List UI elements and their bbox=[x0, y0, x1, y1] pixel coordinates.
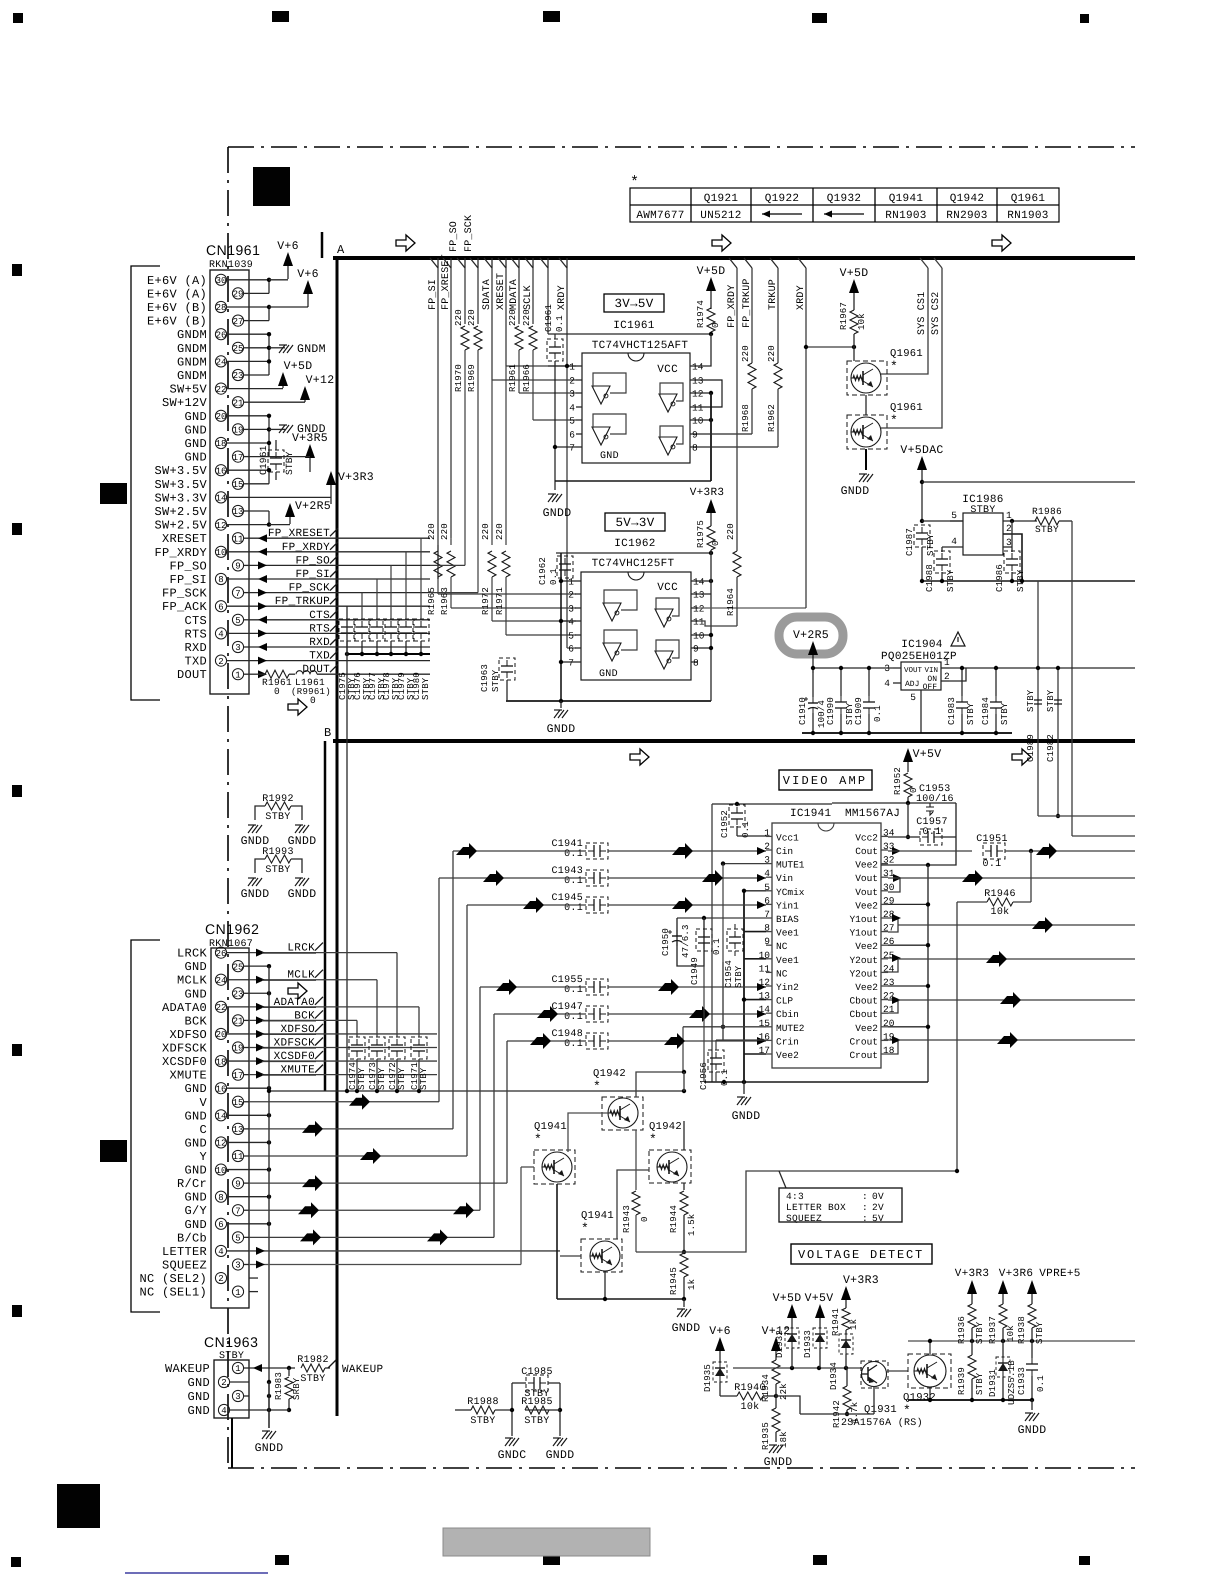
capacitor C1973 STBY bbox=[369, 1037, 385, 1059]
transistor Q1931 bbox=[862, 1362, 887, 1387]
wire IC1962 pin14 VCC to R1975 bbox=[698, 580, 711, 582]
page border dash-dot bbox=[228, 146, 1135, 148]
bottom gray redaction box bbox=[443, 1528, 650, 1556]
svg-text:CTS: CTS bbox=[309, 610, 330, 622]
svg-text:11: 11 bbox=[233, 1152, 244, 1162]
IC1941 pin 30 Vout bbox=[881, 890, 888, 892]
svg-text:8: 8 bbox=[218, 575, 223, 585]
CN1962 pin 6 bbox=[215, 1218, 226, 1229]
svg-text:SW+3.5V: SW+3.5V bbox=[154, 464, 207, 478]
svg-text:TC74VHC125FT: TC74VHC125FT bbox=[592, 558, 675, 570]
CN1961 pin 11 bbox=[232, 533, 243, 544]
svg-text:FP_ACK: FP_ACK bbox=[162, 600, 208, 614]
svg-text:GND: GND bbox=[184, 410, 207, 424]
svg-text:26: 26 bbox=[216, 330, 227, 340]
svg-text:SW+12V: SW+12V bbox=[162, 396, 208, 410]
CN1961 pin wires E+6V group bbox=[249, 279, 269, 281]
svg-text:10: 10 bbox=[693, 631, 705, 642]
resistor R1938 STBY bbox=[1028, 1304, 1036, 1328]
inductor L1961 (R9961) on DOUT bbox=[289, 673, 295, 675]
svg-text:2V: 2V bbox=[872, 1202, 884, 1213]
capacitor C1909 0.1 bbox=[868, 696, 870, 702]
capacitor C1986 STBY bbox=[1004, 551, 1020, 573]
CN1962 pin 16 bbox=[215, 1083, 226, 1094]
wire C1945 line bbox=[420, 904, 586, 906]
CN1961 pin 30 bbox=[215, 274, 226, 285]
wire IC1961 outputs right bbox=[697, 380, 722, 407]
svg-text:R1964: R1964 bbox=[726, 588, 736, 616]
input arrows before caps bbox=[456, 843, 477, 859]
svg-text:0.1: 0.1 bbox=[549, 568, 559, 585]
svg-text:R1935: R1935 bbox=[761, 1422, 771, 1450]
CN1962 pin 13 bbox=[232, 1123, 243, 1134]
V+2R5 rail bbox=[813, 667, 893, 669]
svg-text:NC: NC bbox=[776, 968, 788, 979]
IC1941 pin 15 MUTE2 bbox=[766, 1026, 772, 1028]
svg-text:FP_SI: FP_SI bbox=[169, 573, 207, 587]
IC1962 pin 11 bbox=[691, 620, 698, 622]
svg-text:0: 0 bbox=[640, 1216, 650, 1222]
svg-text:V+5D: V+5D bbox=[284, 360, 313, 373]
IC1961 pin 5 bbox=[576, 419, 582, 421]
wire right vertical x=1058 bbox=[1057, 668, 1059, 816]
svg-text:11: 11 bbox=[759, 963, 771, 974]
power arrow V+5V detect bbox=[815, 1304, 825, 1318]
wire DOUT column bbox=[547, 268, 549, 334]
svg-text:V+5D: V+5D bbox=[840, 267, 869, 280]
IC1962 pin 7 bbox=[575, 661, 581, 663]
svg-text:GND: GND bbox=[184, 451, 207, 465]
IC1962 pin 3 bbox=[575, 607, 581, 609]
svg-text:1: 1 bbox=[235, 1288, 240, 1298]
wire Q1941 left base from SQUEEZ bbox=[521, 1166, 534, 1168]
svg-text:2: 2 bbox=[218, 1274, 223, 1284]
diode D1934 bbox=[839, 1334, 853, 1354]
bus B bbox=[333, 739, 1135, 743]
caps C1975-C1980 ground rail bbox=[347, 653, 430, 655]
CN1961 pin 24 bbox=[215, 356, 226, 367]
wire cap stub bbox=[420, 538, 422, 619]
IC1941 pin 24 Y2out bbox=[881, 971, 888, 973]
svg-text:STBY: STBY bbox=[970, 505, 995, 516]
svg-text:C1986: C1986 bbox=[995, 564, 1005, 592]
svg-text:R1968: R1968 bbox=[741, 404, 751, 432]
svg-text:3: 3 bbox=[235, 1261, 240, 1271]
IC1941 pin 19 Crout bbox=[881, 1039, 888, 1041]
svg-text:D1933: D1933 bbox=[803, 1330, 813, 1358]
capacitor C1987 STBY bbox=[914, 525, 930, 547]
IC1986 pin 1 bbox=[1003, 520, 1037, 522]
CN1961 pin 15 bbox=[232, 478, 243, 489]
open arrow near MCLK bbox=[288, 983, 307, 999]
footer blue rule bbox=[125, 1572, 268, 1574]
resistor R1939 STBY bbox=[968, 1355, 976, 1379]
wire IC1961 gnd bottom bbox=[555, 480, 711, 482]
svg-text:18k: 18k bbox=[779, 1431, 789, 1448]
svg-text:Yin1: Yin1 bbox=[776, 900, 799, 911]
CN1961 pin 5 bbox=[232, 614, 243, 625]
wire IC1961 pin8 to TRKUP col bbox=[697, 446, 778, 448]
svg-text:CN1963: CN1963 bbox=[204, 1334, 258, 1350]
svg-text:R1952: R1952 bbox=[893, 767, 903, 795]
svg-text:4: 4 bbox=[569, 403, 575, 414]
svg-text:9: 9 bbox=[235, 562, 240, 572]
svg-text:C1952: C1952 bbox=[720, 810, 730, 838]
capacitor C1933 0.1 bbox=[1031, 1358, 1033, 1364]
svg-text:32: 32 bbox=[883, 855, 895, 866]
svg-text:R1943: R1943 bbox=[622, 1205, 632, 1233]
svg-text:Crout: Crout bbox=[849, 1036, 878, 1047]
svg-text:R1967: R1967 bbox=[839, 302, 849, 330]
svg-text:3: 3 bbox=[569, 389, 575, 400]
wire SQUEEZ row bbox=[249, 1263, 521, 1265]
IC1941 pin 12 Yin2 bbox=[766, 985, 772, 987]
resistor R1974 0 bbox=[707, 308, 715, 332]
ground GNDD video amp bbox=[743, 1082, 745, 1094]
svg-text:R1969: R1969 bbox=[467, 364, 477, 392]
capacitor C1982 STBY on vertical bbox=[1054, 700, 1062, 704]
svg-text:24: 24 bbox=[216, 358, 227, 368]
svg-text:VOUT: VOUT bbox=[904, 666, 923, 675]
wire CN1963 bottom to border bbox=[231, 1418, 233, 1468]
capacitor C1980 STBY bbox=[413, 619, 429, 641]
ground GNDC bbox=[505, 1437, 513, 1439]
wire cap stub bbox=[376, 579, 378, 619]
svg-text:C: C bbox=[199, 1123, 207, 1137]
svg-text:220: 220 bbox=[481, 523, 491, 540]
svg-text:STBY: STBY bbox=[926, 533, 936, 556]
svg-text:NC (SEL2): NC (SEL2) bbox=[139, 1272, 207, 1286]
svg-text:IC1941: IC1941 bbox=[790, 808, 832, 820]
svg-text:SQUEEZ: SQUEEZ bbox=[162, 1258, 207, 1272]
CN1961 pin 18 bbox=[215, 437, 226, 448]
svg-text:5: 5 bbox=[569, 416, 575, 427]
resistor R1934 22k bbox=[772, 1360, 780, 1384]
svg-text:11: 11 bbox=[693, 617, 705, 628]
Q1961 lower dashed box bbox=[847, 415, 887, 449]
svg-text:Cout: Cout bbox=[855, 846, 878, 857]
wire right vertical x=1038 bbox=[1037, 581, 1039, 816]
capacitor C1954 STBY bbox=[727, 929, 743, 951]
svg-text:2: 2 bbox=[568, 590, 574, 601]
svg-text:CN1961: CN1961 bbox=[206, 242, 260, 258]
CN1961 pin 9 bbox=[232, 560, 243, 571]
resistor R1962 220 bbox=[777, 268, 779, 363]
CN1962 pin 11 bbox=[232, 1150, 243, 1161]
open arrow above bus A right bbox=[992, 235, 1011, 251]
svg-text:GNDD: GNDD bbox=[546, 1449, 575, 1462]
svg-text:STBY: STBY bbox=[421, 677, 431, 700]
IC1962 pin 5 bbox=[575, 634, 581, 636]
ground GNDD under cluster bbox=[683, 1299, 685, 1307]
power arrow V+5D above R1967 bbox=[849, 279, 859, 293]
svg-text:*: * bbox=[581, 1221, 589, 1236]
CN1962 pin 22 bbox=[215, 1001, 226, 1012]
CN1962 pin 8 bbox=[215, 1191, 226, 1202]
CN1962 pin 18 bbox=[215, 1055, 226, 1066]
IC1941 pin 28 Y1out bbox=[881, 917, 888, 919]
svg-text:47/6.3: 47/6.3 bbox=[681, 924, 691, 958]
svg-text:14: 14 bbox=[692, 362, 704, 373]
CN1962 pin 5 bbox=[232, 1232, 243, 1243]
svg-text:0: 0 bbox=[310, 695, 316, 706]
svg-text:FP_XRDY: FP_XRDY bbox=[154, 546, 207, 560]
label VOLTAGE DETECT bbox=[791, 1244, 932, 1264]
svg-text:11: 11 bbox=[233, 534, 244, 544]
svg-text:3V→5V: 3V→5V bbox=[614, 297, 653, 311]
svg-text:*: * bbox=[630, 174, 639, 191]
svg-text:IC1904: IC1904 bbox=[901, 639, 943, 651]
svg-text:MUTE1: MUTE1 bbox=[776, 860, 805, 871]
svg-text:Y2out: Y2out bbox=[849, 968, 878, 979]
IC1904 bottom rail bbox=[802, 732, 1012, 734]
svg-text:0.1: 0.1 bbox=[712, 938, 722, 955]
CN1961 pin 1 bbox=[232, 669, 243, 680]
svg-text:17: 17 bbox=[233, 1071, 244, 1081]
svg-text:DOUT: DOUT bbox=[177, 668, 207, 682]
CN1961 pin 29 bbox=[232, 288, 243, 299]
IC1941 pin 14 Cbin bbox=[766, 1012, 772, 1014]
CN1961 signal DOUT bbox=[249, 673, 258, 675]
capacitor C1979 STBY bbox=[398, 619, 414, 641]
wire IC1962 pin1 gnd vertical bbox=[560, 553, 562, 701]
resistor R1983 STBY vertical bbox=[288, 1368, 290, 1376]
svg-text:0: 0 bbox=[909, 787, 919, 793]
svg-text:C1984: C1984 bbox=[981, 697, 991, 725]
svg-text:R1965: R1965 bbox=[427, 587, 437, 615]
svg-text:14: 14 bbox=[216, 494, 227, 504]
svg-text:Vout: Vout bbox=[855, 873, 878, 884]
svg-text:R1962: R1962 bbox=[767, 404, 777, 432]
CN1961 pin 4 bbox=[215, 628, 226, 639]
wire WAKEUP row bbox=[249, 1367, 295, 1369]
wire R1946 feedback vertical bbox=[956, 902, 958, 1171]
capacitor C1961 0.1 bbox=[547, 339, 563, 361]
svg-text:R1934: R1934 bbox=[761, 1374, 771, 1402]
wire cap stub bbox=[390, 565, 392, 619]
svg-text:FP_SO: FP_SO bbox=[295, 555, 330, 567]
IC1904 body bbox=[901, 662, 941, 690]
svg-text:3: 3 bbox=[568, 604, 574, 615]
svg-text:RN2903: RN2903 bbox=[946, 210, 987, 222]
svg-text::: : bbox=[862, 1213, 868, 1224]
svg-text:*: * bbox=[890, 413, 898, 428]
svg-text:4: 4 bbox=[884, 678, 890, 689]
svg-text:GND: GND bbox=[184, 1164, 207, 1178]
wire FP_XRESET column bbox=[450, 268, 452, 538]
svg-text:GND: GND bbox=[187, 1404, 210, 1418]
svg-text:V+3R3: V+3R3 bbox=[690, 487, 725, 499]
svg-text:V+3R3: V+3R3 bbox=[955, 1268, 990, 1280]
wire between Q1961s bbox=[865, 395, 867, 415]
svg-text:RTS: RTS bbox=[309, 623, 330, 635]
CN1961 pin 13 bbox=[232, 505, 243, 516]
svg-text:GNDD: GNDD bbox=[732, 1110, 761, 1123]
bus vertical stub above A bbox=[321, 232, 324, 258]
IC1962 body bbox=[581, 572, 691, 680]
wire C1947 line bbox=[420, 1013, 586, 1015]
svg-text:10k: 10k bbox=[741, 1401, 760, 1413]
svg-text:24: 24 bbox=[883, 963, 895, 974]
wire R1969 column bbox=[474, 326, 482, 350]
svg-text:16: 16 bbox=[216, 1084, 227, 1094]
svg-text:*: * bbox=[903, 1403, 911, 1418]
svg-text:WAKEUP: WAKEUP bbox=[165, 1362, 210, 1376]
IC1961 pin 3 bbox=[576, 392, 582, 394]
svg-text:V+3R3: V+3R3 bbox=[338, 471, 374, 484]
resistor R1964 220 on FP_XRDY column bbox=[733, 551, 741, 577]
wire Crout output bbox=[888, 1039, 898, 1041]
wire Y1out output bbox=[888, 918, 898, 925]
svg-text:Vee2: Vee2 bbox=[855, 982, 878, 993]
svg-text:R1945: R1945 bbox=[669, 1267, 679, 1295]
transistor substitution table bbox=[630, 188, 1059, 222]
svg-text:22k: 22k bbox=[779, 1383, 789, 1400]
svg-text:1: 1 bbox=[764, 827, 770, 838]
table left arrows bbox=[762, 213, 802, 215]
svg-text:5V: 5V bbox=[872, 1213, 884, 1224]
power arrow V+12 detect bbox=[771, 1337, 781, 1351]
svg-text:R1986: R1986 bbox=[1032, 506, 1062, 517]
power arrow V+5D above R1974 bbox=[706, 277, 716, 291]
svg-text:R1939: R1939 bbox=[957, 1367, 967, 1395]
svg-text::: : bbox=[862, 1202, 868, 1213]
capacitor C1974 STBY bbox=[349, 1037, 365, 1059]
svg-text:STBY: STBY bbox=[975, 1372, 985, 1395]
svg-text:C1949: C1949 bbox=[690, 957, 700, 985]
IC1904 pin5 bbox=[920, 690, 922, 700]
power arrow under V+2R5 bbox=[808, 641, 818, 655]
svg-text:FP_SI: FP_SI bbox=[295, 569, 330, 581]
svg-text:V+6: V+6 bbox=[297, 268, 319, 281]
IC1961 pin 6 bbox=[576, 433, 582, 435]
svg-text:SYS CS2: SYS CS2 bbox=[931, 292, 942, 335]
svg-text:R1966: R1966 bbox=[522, 364, 532, 392]
CN1961 GNDM pins wires bbox=[249, 333, 269, 335]
svg-text:RN1903: RN1903 bbox=[1007, 210, 1048, 222]
svg-text:220: 220 bbox=[767, 345, 777, 362]
IC1941 pin 29 Vee2 bbox=[881, 903, 888, 905]
IC1962 pin 6 bbox=[575, 647, 581, 649]
power arrow V+3R3 detect bbox=[841, 1286, 851, 1300]
CN1962 pin 26 bbox=[215, 947, 226, 958]
svg-text:1: 1 bbox=[235, 670, 240, 680]
svg-text:R1941: R1941 bbox=[831, 1308, 841, 1336]
page registration marks bbox=[13, 13, 23, 23]
svg-text:5: 5 bbox=[235, 1234, 240, 1244]
svg-text:10: 10 bbox=[216, 1166, 227, 1176]
svg-text:Vee1: Vee1 bbox=[776, 955, 799, 966]
open arrow above bus A mid bbox=[712, 235, 731, 251]
CN1962 pin 20 bbox=[215, 1028, 226, 1039]
IC1962 buffer gates bbox=[603, 603, 621, 621]
svg-text:SRBY: SRBY bbox=[292, 1377, 302, 1400]
svg-text:FP_SO: FP_SO bbox=[449, 221, 460, 252]
svg-text:V+5V: V+5V bbox=[805, 1292, 834, 1305]
IC1941 pin 32 Vee2 bbox=[881, 863, 888, 865]
IC1986 pin 4 bbox=[942, 546, 963, 548]
svg-text:ADATA0: ADATA0 bbox=[162, 1001, 207, 1015]
svg-text:17: 17 bbox=[233, 453, 244, 463]
svg-text:10k: 10k bbox=[991, 906, 1010, 918]
svg-text:5V→3V: 5V→3V bbox=[615, 516, 654, 530]
svg-text:SYS CS1: SYS CS1 bbox=[917, 292, 928, 335]
capacitor C1950 47/6.3 and C1949 0.1 bbox=[677, 917, 766, 919]
IC1962 pin 12 bbox=[691, 607, 698, 609]
wire C1941 line bbox=[420, 850, 586, 852]
IC1941 pin 18 Crout bbox=[881, 1053, 888, 1055]
svg-text:0: 0 bbox=[274, 686, 280, 697]
svg-text:C1910: C1910 bbox=[798, 697, 808, 725]
CN1963 pin 3 bbox=[232, 1390, 243, 1401]
svg-text:LETTER: LETTER bbox=[162, 1245, 207, 1259]
svg-text:220: 220 bbox=[467, 309, 477, 326]
svg-text:NC: NC bbox=[776, 941, 788, 952]
capacitor C1910 100/4 bbox=[812, 697, 814, 703]
svg-text:STBY: STBY bbox=[1035, 524, 1059, 535]
base line to Q1931 bbox=[733, 1367, 862, 1369]
CN1961 pin 27 bbox=[232, 315, 243, 326]
svg-text:LETTER BOX: LETTER BOX bbox=[786, 1202, 846, 1213]
svg-text:*: * bbox=[649, 1132, 657, 1147]
svg-text:21: 21 bbox=[233, 398, 244, 408]
wire Y2out output bbox=[888, 958, 898, 959]
svg-text:E+6V (A): E+6V (A) bbox=[147, 287, 207, 301]
capacitor C1975 STBY bbox=[339, 619, 355, 641]
ground GNDD under IC1961 bbox=[548, 493, 556, 495]
capacitor C1976 STBY bbox=[354, 619, 370, 641]
svg-text:TC74VHCT125AFT: TC74VHCT125AFT bbox=[592, 340, 689, 352]
CN1961 signal FP_SO bbox=[249, 564, 430, 566]
CN1961 pin 21 bbox=[232, 397, 243, 408]
svg-text:18: 18 bbox=[216, 1057, 227, 1067]
wire Q1932 collector to rail bbox=[929, 1341, 931, 1354]
detect ground rail bbox=[908, 1399, 1032, 1401]
wire MUTE1 to MUTE2 net bbox=[723, 863, 766, 865]
wire LETTER row bbox=[249, 1250, 560, 1252]
svg-text:C1909: C1909 bbox=[854, 697, 864, 725]
svg-text:10: 10 bbox=[216, 548, 227, 558]
svg-text:Crin: Crin bbox=[776, 1036, 799, 1047]
svg-text:1k: 1k bbox=[687, 1279, 697, 1290]
CN1962 pin 21 bbox=[232, 1015, 243, 1026]
CN1961 pin 2 bbox=[215, 655, 226, 666]
svg-text:STBY: STBY bbox=[975, 1321, 985, 1344]
svg-text:R/Cr: R/Cr bbox=[177, 1177, 207, 1191]
svg-text:Yin2: Yin2 bbox=[776, 982, 799, 993]
wire IC1904 VIN net bbox=[949, 667, 1135, 669]
ground GNDD CN1963 bbox=[262, 1430, 270, 1432]
capacitor C1972 STBY bbox=[389, 1037, 405, 1059]
svg-text:GNDD: GNDD bbox=[1018, 1424, 1047, 1437]
svg-text:NC (SEL1): NC (SEL1) bbox=[139, 1286, 207, 1300]
svg-text:23: 23 bbox=[233, 371, 244, 381]
svg-text:10k: 10k bbox=[857, 313, 867, 330]
svg-text:21: 21 bbox=[233, 1017, 244, 1027]
svg-text:15: 15 bbox=[233, 1098, 244, 1108]
resistor R1975 0 bbox=[707, 526, 715, 550]
svg-text:Cbin: Cbin bbox=[776, 1009, 799, 1020]
svg-text:V+3R6: V+3R6 bbox=[999, 1268, 1034, 1280]
IC1941 pin 34 Vcc2 bbox=[881, 835, 888, 837]
power arrow V+3R3 right bbox=[967, 1280, 977, 1294]
svg-text:11: 11 bbox=[692, 403, 704, 414]
CN1961 signal CTS bbox=[249, 619, 430, 621]
svg-text:STBY: STBY bbox=[265, 865, 290, 876]
svg-text:Y1out: Y1out bbox=[849, 928, 878, 939]
svg-text:GNDM: GNDM bbox=[297, 343, 326, 356]
svg-text:CN1962: CN1962 bbox=[205, 921, 259, 937]
